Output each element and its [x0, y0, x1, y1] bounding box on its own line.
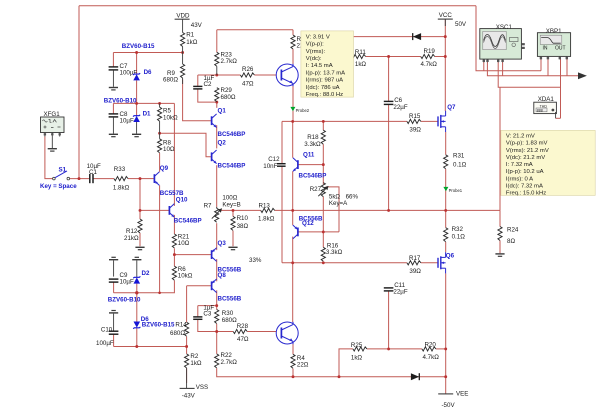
svg-text:680Ω: 680Ω [170, 330, 185, 337]
wire R12 bottom lead [139, 233, 141, 246]
resistor R30 [215, 310, 238, 325]
wire R10 bottom lead [232, 231, 234, 247]
svg-text:V(p-p): 1.83 mV: V(p-p): 1.83 mV [506, 141, 548, 147]
wire scope B to output bus [498, 61, 560, 87]
node R1 bottom dot [181, 51, 184, 54]
wire R15 to Q7 gate [421, 120, 438, 122]
svg-text:Key = Space: Key = Space [40, 183, 77, 190]
svg-text:I(rms): 0 A: I(rms): 0 A [506, 176, 533, 182]
svg-text:R20: R20 [425, 341, 437, 348]
wire R20 to VEE column [436, 348, 446, 350]
wire Q11 collector lead [292, 121, 294, 157]
node A dot [215, 74, 218, 77]
svg-text:2.7kΩ: 2.7kΩ [221, 58, 238, 65]
svg-text:R33: R33 [114, 166, 126, 173]
svg-text:I: 7.32 mA: I: 7.32 mA [506, 162, 533, 168]
svg-text:Q1: Q1 [218, 107, 227, 114]
resistor R19 [421, 48, 438, 68]
svg-text:BZV60-B15: BZV60-B15 [122, 43, 155, 50]
wire top input rail [79, 5, 476, 7]
svg-text:680Ω: 680Ω [163, 77, 178, 84]
node D6 top dot [135, 51, 138, 54]
wire Q12 base line [298, 231, 339, 233]
node Q10 base dot [139, 209, 142, 212]
resistor R4 [291, 354, 309, 368]
wire R5 junction to Q2 base [160, 133, 212, 157]
node bottom drive Q12 dot [291, 261, 294, 264]
wire R25 to C11 node [367, 348, 422, 350]
wire D1 top lead [136, 103, 138, 115]
wire R25 rail riser [339, 349, 353, 377]
capacitor C6 [384, 97, 408, 111]
svg-text:47Ω: 47Ω [242, 80, 254, 87]
power VEE [438, 390, 468, 409]
ground under R12 [135, 247, 144, 251]
node R4 rail dot [292, 375, 295, 378]
ground arrow above C9 [109, 257, 118, 277]
resistor R10 [231, 215, 249, 230]
node output Q11 Q12 dot [291, 209, 294, 212]
transistor Q11 [293, 151, 326, 179]
svg-text:888: 888 [537, 108, 543, 112]
ground arrow above C10 [109, 310, 118, 331]
wire R7 bottom to Q3 [216, 223, 218, 250]
node R20 VEE dot [444, 347, 447, 350]
wire Q6 source to VEE [445, 273, 447, 394]
potentiometer R7 [204, 195, 241, 223]
svg-text:R1: R1 [186, 31, 194, 38]
svg-text:BC546BP: BC546BP [174, 218, 202, 225]
node R10 wiper dot [232, 209, 235, 212]
wire C12 column upper [281, 121, 283, 163]
svg-text:R15: R15 [409, 113, 421, 120]
wire Q1 collector node [216, 102, 218, 108]
function generator XFG1 [41, 111, 65, 138]
resistor R18 [304, 130, 325, 148]
svg-text:R11: R11 [355, 49, 366, 56]
wire Q8 base line [187, 285, 212, 287]
wire R26 to Q4 base [254, 74, 276, 76]
wire instrument common bus [487, 61, 578, 76]
svg-text:R13: R13 [259, 203, 271, 210]
oscilloscope XSC1 [480, 24, 525, 62]
switch S1 [40, 166, 77, 190]
wire D6 top lead [136, 53, 138, 74]
probe Probe1 [443, 187, 462, 193]
svg-text:Q7: Q7 [447, 104, 456, 111]
node Q9 emitter rail dot [158, 292, 161, 295]
wire R11-R19 bootstrap line [302, 56, 352, 58]
svg-text:BC546BP: BC546BP [299, 173, 327, 180]
wire C2 top lead [197, 75, 199, 86]
svg-text:1kΩ: 1kΩ [355, 61, 367, 68]
probe Probe2 [290, 107, 309, 113]
wire Q10 base line [140, 209, 169, 211]
wire R24 bottom lead [499, 241, 501, 254]
capacitor C12 [263, 156, 285, 170]
potentiometer R27 [310, 183, 359, 208]
wire D2 bottom lead [136, 284, 138, 293]
wire output feedback line right [275, 209, 500, 211]
svg-text:43V: 43V [191, 22, 203, 29]
svg-text:8Ω: 8Ω [507, 238, 515, 245]
wire C8 D1 R5 node [113, 102, 174, 104]
svg-text:V: 21.2 mV: V: 21.2 mV [506, 134, 535, 140]
svg-text:-43V: -43V [182, 392, 196, 399]
node R19 VCC dot [444, 55, 447, 58]
svg-text:21kΩ: 21kΩ [124, 235, 139, 242]
svg-text:10kΩ: 10kΩ [178, 273, 193, 280]
svg-text:-50V: -50V [442, 402, 456, 409]
transistor Q5 [276, 322, 298, 344]
node Q12 base dot [322, 230, 325, 233]
wire scope trigger stub [502, 61, 504, 76]
wire VCC diode branch [340, 36, 445, 38]
wire output feedback line left [219, 209, 261, 211]
resistor R24 [498, 226, 519, 245]
svg-text:VDD: VDD [176, 13, 190, 20]
transistor Q12 [293, 215, 323, 238]
node R25 riser dot [338, 375, 341, 378]
resistor R23 [215, 51, 237, 75]
wire R3 top lead [292, 30, 294, 35]
svg-text:D2: D2 [142, 270, 150, 277]
wire node R1 bottom [113, 52, 182, 54]
svg-text:1.8kΩ: 1.8kΩ [258, 216, 275, 223]
wire R28 line [217, 331, 234, 333]
svg-text:38Ω: 38Ω [237, 223, 249, 230]
svg-text:R10: R10 [237, 215, 249, 222]
wire output riser to instruments [499, 87, 501, 210]
svg-text:C2: C2 [204, 81, 212, 88]
node VSS rail dot [135, 345, 138, 348]
svg-text:1kΩ: 1kΩ [351, 355, 363, 362]
wire C2 bottom to Q1 collector [198, 89, 217, 102]
wire R28 to Q5 base [247, 331, 276, 333]
wire top drive line [282, 120, 407, 122]
wire R32 bottom to Q6 [445, 242, 447, 252]
svg-text:Q6: Q6 [446, 252, 455, 259]
resistor R13 [258, 203, 275, 223]
wire XBP OUT+ drop to XDA input [560, 58, 562, 119]
svg-text:33%: 33% [249, 257, 262, 264]
capacitor C7 [109, 63, 138, 87]
resistor R26 [240, 66, 254, 88]
svg-text:1.8kΩ: 1.8kΩ [113, 185, 130, 192]
wire R9 bottom to Q1 base [183, 80, 212, 121]
distortion analyzer XDA1 [534, 96, 557, 118]
wire R32 top lead [445, 210, 447, 227]
svg-text:3.3kΩ: 3.3kΩ [304, 141, 321, 148]
wire Q4 emitter to top drive [292, 84, 294, 122]
svg-text:22Ω: 22Ω [297, 362, 309, 369]
wire C6 bootstrap column upper [388, 57, 390, 101]
wire input node to Q9 base [140, 178, 154, 180]
wire R22 column [216, 332, 218, 354]
svg-text:R31: R31 [453, 153, 465, 160]
wire C7 top lead [112, 53, 114, 67]
wire VAS top rail [217, 29, 293, 31]
svg-text:V(p-p):: V(p-p): [306, 42, 324, 48]
ground under C8 [109, 134, 118, 138]
svg-text:680Ω: 680Ω [221, 94, 236, 101]
svg-text:0.1Ω: 0.1Ω [453, 161, 467, 168]
transistor Q8 [212, 272, 242, 303]
capacitor C10 [96, 327, 118, 348]
wire R24 top lead [499, 210, 501, 226]
svg-text:Probe1: Probe1 [449, 188, 463, 193]
resistor R16 [321, 242, 342, 261]
svg-text:BZV60-B15: BZV60-B15 [142, 322, 175, 329]
wire scope A+ pin stub [483, 61, 485, 71]
resistor R20 [422, 341, 439, 360]
probe box 1 [301, 31, 354, 98]
wire R8 bottom to Q9 collector [159, 153, 161, 172]
svg-text:100µF: 100µF [120, 69, 138, 76]
svg-text:39Ω: 39Ω [409, 268, 421, 275]
svg-text:66%: 66% [346, 194, 359, 201]
svg-text:C10: C10 [101, 327, 113, 334]
capacitor C8 [109, 111, 134, 133]
resistor R22 [215, 352, 238, 368]
wire C3 bottom lead [198, 320, 217, 332]
svg-text:R32: R32 [452, 226, 464, 233]
wire input node down [139, 179, 141, 219]
wire long column to Q10 collector [173, 103, 175, 205]
resistor R25 [351, 342, 367, 361]
wire R33 to input node [128, 178, 140, 180]
wire Q2 emitter to R7 [216, 165, 218, 207]
svg-text:Q2: Q2 [218, 139, 227, 146]
svg-text:Key=A: Key=A [329, 200, 348, 207]
capacitor C11 [384, 282, 408, 295]
wire C3 top branch [198, 305, 217, 307]
wire R16 leads [322, 232, 324, 247]
svg-text:VSS: VSS [196, 384, 208, 391]
svg-text:Q8: Q8 [218, 272, 227, 279]
svg-text:D1: D1 [143, 110, 151, 117]
wire R27 top lead [322, 165, 324, 185]
wire R27 wiper loop [326, 187, 339, 232]
resistor R33 [113, 166, 130, 192]
svg-text:C3: C3 [203, 311, 211, 318]
wire XFG to switch [45, 137, 53, 179]
wire bottom drive line [282, 262, 407, 264]
svg-text:2.7kΩ: 2.7kΩ [221, 359, 238, 366]
svg-text:BC546BP: BC546BP [218, 131, 246, 138]
wire R12 top lead [139, 210, 141, 219]
node R5 R8 dot [158, 132, 161, 135]
capacitor C9 [109, 272, 134, 285]
wire Q8 collector to C3 node [216, 290, 218, 305]
svg-text:10kΩ: 10kΩ [163, 115, 178, 122]
diode on VEE rail [411, 373, 419, 380]
wire XBP IN+ pin stub [540, 58, 542, 71]
svg-text:100µF: 100µF [96, 340, 114, 347]
wire D6 anode to node [136, 81, 138, 104]
wire R30 bottom lead [216, 324, 218, 332]
wire Q11 emitter to output [292, 171, 294, 210]
svg-text:V(rms): 21.2 mV: V(rms): 21.2 mV [506, 148, 549, 154]
svg-text:0.1Ω: 0.1Ω [452, 234, 466, 241]
probe box 2 [501, 130, 595, 196]
svg-text:BZV60-B10: BZV60-B10 [108, 296, 141, 303]
wire R18 bottom to Q11 base node [322, 144, 324, 164]
resistor R9 [163, 53, 185, 85]
wire R17 to Q6 gate [421, 262, 438, 264]
svg-text:I(p-p): 10.2 uA: I(p-p): 10.2 uA [506, 169, 544, 175]
transistor Q10 [169, 197, 201, 225]
svg-text:50V: 50V [455, 21, 467, 28]
resistor R12 [124, 219, 142, 242]
node input R33 dot [139, 177, 142, 180]
node D1 dot [135, 102, 138, 105]
node top drive Q4 dot [291, 120, 294, 123]
wire scope A feed drop [476, 6, 541, 71]
ground under R24 [495, 253, 504, 257]
resistor R15 [407, 113, 421, 133]
svg-text:4.7kΩ: 4.7kΩ [421, 61, 438, 68]
wire C8 top lead [112, 103, 114, 113]
svg-text:IN: IN [543, 46, 548, 52]
node C3 top dot [215, 304, 218, 307]
svg-text:R14: R14 [175, 321, 187, 328]
ground under XFG1 [48, 138, 57, 152]
zener D2 [108, 270, 150, 303]
resistor R28 [233, 323, 249, 343]
svg-text:10Ω: 10Ω [163, 146, 175, 153]
svg-text:Q3: Q3 [218, 240, 227, 247]
svg-text:R25: R25 [351, 342, 363, 349]
ground under R10 [228, 247, 237, 251]
transistor Q3 [212, 240, 242, 273]
wire XBP IN- stub [547, 58, 549, 76]
svg-text:R27: R27 [310, 186, 322, 193]
power VCC [438, 12, 467, 28]
svg-text:Probe2: Probe2 [296, 108, 310, 113]
svg-text:I(rms): 987 uA: I(rms): 987 uA [306, 78, 343, 84]
bode plotter XBP1 [537, 28, 570, 59]
resistor R8 [158, 133, 175, 153]
resistor R6 [172, 266, 192, 280]
svg-text:22µF: 22µF [393, 104, 407, 111]
svg-text:680Ω: 680Ω [222, 317, 237, 324]
svg-text:R17: R17 [409, 255, 421, 262]
node output R31 R32 dot [444, 209, 447, 212]
wire Q5 emitter to R4 [292, 344, 294, 354]
wire Q8 base column to R14 [186, 286, 188, 323]
svg-text:I(dc): 7.32 mA: I(dc): 7.32 mA [506, 184, 543, 190]
svg-text:BC556B: BC556B [218, 296, 242, 303]
svg-text:R7: R7 [204, 202, 212, 209]
svg-text:10µF: 10µF [120, 118, 134, 125]
wire R30 top lead [216, 306, 218, 310]
wire R31 bottom to output [445, 169, 447, 210]
svg-text:R19: R19 [424, 48, 436, 55]
wire VSS rail [114, 346, 187, 348]
ground arrow above D2 [132, 257, 141, 278]
resistor R2 [185, 353, 202, 368]
node zener rail dot [135, 291, 138, 294]
svg-text:V: 3.91 V: V: 3.91 V [306, 34, 330, 40]
wire C6 to output node column [388, 105, 390, 211]
ground under D1 [132, 134, 141, 138]
node C3 bottom dot [215, 330, 218, 333]
wire C9 bottom lead [113, 282, 115, 292]
wire VCC column [444, 19, 446, 111]
svg-text:BZV60-B10: BZV60-B10 [104, 98, 137, 105]
wire R10 top lead [232, 210, 234, 216]
svg-text:Freq.: 88.0 Hz: Freq.: 88.0 Hz [306, 92, 343, 98]
node Q11 base dot [322, 163, 325, 166]
resistor R1 [181, 31, 198, 52]
svg-text:R26: R26 [242, 66, 254, 73]
wire R21 bottom lead [173, 248, 175, 254]
resistor R31 [444, 153, 467, 169]
node R14 R2 dot [185, 345, 188, 348]
node C11 R25 dot [387, 347, 390, 350]
ground under C7 [109, 87, 118, 91]
capacitor C2 [193, 75, 214, 89]
wire R2 top lead [186, 347, 188, 354]
svg-text:VEE: VEE [456, 390, 468, 397]
capacitor C1 [87, 163, 101, 183]
resistor R3 partially hidden [291, 35, 308, 50]
wire input drop to switch node [78, 6, 80, 179]
wire R3 to Q4 collector [292, 49, 294, 66]
svg-text:Q11: Q11 [303, 151, 315, 158]
svg-text:I(p-p): 13.7 mA: I(p-p): 13.7 mA [306, 70, 345, 76]
resistor R29 [215, 87, 236, 102]
wire Q3 collector to Q8 emitter [216, 259, 218, 281]
svg-text:V(dc):: V(dc): [306, 56, 322, 62]
resistor R11 [352, 49, 367, 68]
diode at VCC [413, 33, 421, 40]
svg-text:47Ω: 47Ω [237, 336, 249, 343]
wire Q1 emitter to Q2 collector [216, 125, 218, 148]
svg-text:100Ω: 100Ω [222, 195, 237, 202]
node Q1 collector dot [215, 101, 218, 104]
wire Q10 emitter to R21 [173, 215, 175, 234]
wire Q3 base line [174, 254, 211, 256]
svg-text:Q12: Q12 [302, 220, 314, 227]
svg-text:BC546BP: BC546BP [218, 163, 246, 170]
node R21 R6 dot [173, 253, 176, 256]
wire C1 to R33 [93, 178, 114, 180]
mosfet Q6 [438, 252, 455, 273]
wire R27 bottom to node [322, 197, 324, 232]
svg-text:1kΩ: 1kΩ [186, 39, 198, 46]
svg-text:I(dc): 786 uA: I(dc): 786 uA [306, 85, 340, 91]
capacitor C3 [193, 304, 214, 319]
zener D6b [133, 316, 175, 328]
wire R11 to C6 node [366, 56, 421, 58]
transistor Q9 [154, 165, 184, 197]
svg-text:VCC: VCC [439, 12, 453, 19]
svg-text:Q10: Q10 [176, 197, 188, 204]
output bus arrow [578, 72, 587, 79]
resistor R17 [407, 255, 421, 275]
wire C12 column lower [281, 167, 283, 263]
svg-text:10µF: 10µF [120, 278, 134, 285]
transistor Q1 [212, 107, 246, 138]
wire R18 top stub [322, 121, 324, 130]
svg-text:4.7kΩ: 4.7kΩ [423, 354, 440, 361]
wire R6 bottom to zener rail [114, 280, 175, 292]
svg-text:22µF: 22µF [393, 289, 407, 296]
wire Q12 collector to bottom drive and Q5 [292, 237, 294, 322]
svg-text:10nF: 10nF [263, 163, 277, 170]
